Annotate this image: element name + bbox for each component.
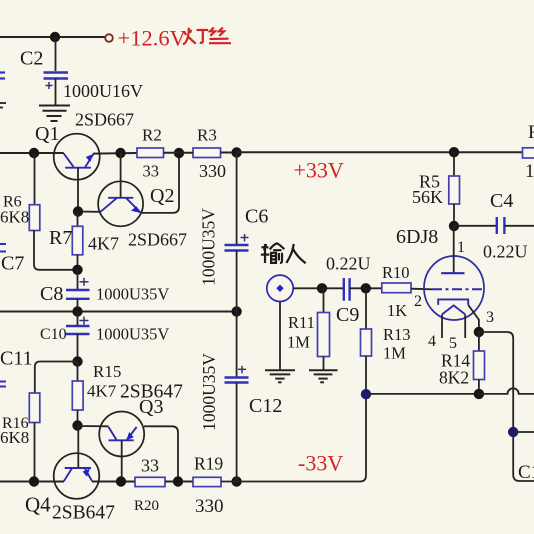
node junction R16 bottom bbox=[29, 476, 39, 486]
svg-text:R2: R2 bbox=[142, 126, 162, 145]
transistor Q4 2SB647 bbox=[25, 426, 115, 524]
svg-text:2SD667: 2SD667 bbox=[75, 110, 134, 130]
svg-text:C9: C9 bbox=[336, 304, 359, 326]
wire C9 to R10 node bbox=[350, 287, 382, 289]
svg-text:0.22U: 0.22U bbox=[483, 242, 528, 262]
node junction C6 top bbox=[231, 147, 241, 157]
svg-text:R8: R8 bbox=[528, 122, 534, 143]
node junction R5 top bbox=[449, 147, 459, 157]
svg-text:1000U35V: 1000U35V bbox=[199, 353, 219, 431]
node junction R20/R19 bbox=[173, 476, 183, 486]
anode plate bbox=[441, 272, 464, 274]
wire Q1 emitter to R2 bbox=[93, 152, 137, 155]
node junction R15/Q4 base/Q3 collector bbox=[72, 420, 82, 430]
svg-text:C4: C4 bbox=[490, 190, 513, 212]
wire C2 top bbox=[55, 37, 57, 71]
transistor Q2 2SD667 bbox=[98, 153, 187, 250]
ground input jack bbox=[265, 370, 295, 382]
cathode bbox=[438, 299, 468, 305]
wire mid rail bbox=[0, 311, 237, 313]
resistor R2 bbox=[137, 126, 164, 181]
svg-text:1K: 1K bbox=[387, 301, 407, 320]
heater pin 4 bbox=[441, 314, 443, 338]
svg-text:-33V: -33V bbox=[298, 451, 343, 476]
wire C2 bottom bbox=[55, 79, 57, 106]
resistor R19 bbox=[193, 454, 224, 518]
resistor R11 bbox=[287, 288, 330, 370]
svg-text:0.22U: 0.22U bbox=[326, 254, 371, 274]
ground C2 bbox=[39, 106, 70, 122]
capacitor C8 bbox=[40, 270, 169, 312]
capacitor C2 plates bbox=[44, 73, 69, 79]
svg-text:33: 33 bbox=[143, 162, 160, 181]
svg-text:+33V: +33V bbox=[294, 158, 344, 183]
label +12.6V filament (red) bbox=[118, 26, 186, 51]
svg-text:1M: 1M bbox=[287, 333, 310, 352]
svg-text:R7: R7 bbox=[49, 227, 72, 249]
resistor R13 bbox=[361, 288, 411, 394]
svg-text:4K7: 4K7 bbox=[87, 382, 117, 401]
svg-text:1000U35V: 1000U35V bbox=[96, 285, 169, 304]
node junction R13/-33V riser (blue) bbox=[361, 389, 371, 399]
node junction Q1 base/Q2 collector/R7 bbox=[73, 206, 83, 216]
wire bottom rail left bbox=[0, 481, 64, 483]
wire jack to C9 bbox=[293, 287, 343, 289]
wire R10 to grid pin 2 bbox=[411, 288, 432, 291]
connector input jack bbox=[267, 275, 293, 301]
svg-text:6K8: 6K8 bbox=[0, 208, 29, 227]
wire with hop over riser bbox=[479, 388, 534, 394]
C2 polarity + bbox=[46, 82, 53, 89]
node junction C6/C12 on mid rail bbox=[231, 306, 241, 316]
resistor R20 bbox=[134, 456, 165, 515]
resistor R14 bbox=[439, 332, 485, 394]
wire pin3 node to output riser bbox=[479, 332, 534, 481]
svg-text:C7: C7 bbox=[1, 253, 24, 275]
wire riser node to right edge bbox=[513, 431, 534, 433]
wire node to C4 bbox=[454, 225, 496, 227]
svg-text:1000U16V: 1000U16V bbox=[63, 81, 143, 101]
node junction R7/C8 bbox=[72, 265, 82, 275]
capacitor C10 bbox=[40, 312, 169, 362]
svg-text:8K2: 8K2 bbox=[439, 368, 469, 388]
wire R20-R19 bbox=[165, 481, 193, 483]
node junction C9/R10/R13 bbox=[361, 283, 371, 293]
svg-text:4: 4 bbox=[428, 333, 436, 350]
svg-text:1000U35V: 1000U35V bbox=[199, 208, 219, 286]
resistor R8 (cut off at right edge) bbox=[523, 122, 534, 182]
wire Q2 emitter up to R2/R3 node bbox=[142, 153, 179, 213]
svg-text:R3: R3 bbox=[197, 126, 217, 145]
label 灯丝 (red, drawn glyphs) bbox=[183, 28, 231, 45]
svg-text:C2: C2 bbox=[20, 48, 43, 70]
node junction pin3/R14 bbox=[474, 327, 484, 337]
svg-text:5: 5 bbox=[449, 335, 457, 352]
svg-text:R20: R20 bbox=[134, 498, 159, 514]
svg-text:3: 3 bbox=[486, 309, 494, 326]
pin 1 anode lead bbox=[453, 226, 455, 273]
node junction R6 top bbox=[29, 148, 39, 158]
node junction C10/R16/R15 bbox=[72, 356, 82, 366]
svg-text:Q2: Q2 bbox=[150, 185, 174, 207]
resistor R16 bbox=[0, 362, 77, 482]
wire -33V rail to riser bbox=[221, 394, 366, 481]
node junction output riser (blue) bbox=[508, 427, 518, 437]
svg-text:Q1: Q1 bbox=[35, 123, 59, 145]
capacitor C11 (cut off at left edge) bbox=[0, 382, 6, 387]
resistor R5 bbox=[412, 152, 460, 226]
svg-text:6K8: 6K8 bbox=[0, 428, 29, 447]
svg-text:C11: C11 bbox=[0, 348, 33, 370]
svg-text:C15: C15 bbox=[518, 462, 534, 483]
ground (cut off at left edge) bbox=[0, 103, 6, 108]
svg-text:1: 1 bbox=[457, 239, 465, 256]
svg-text:R13: R13 bbox=[383, 325, 411, 344]
vacuum tube U1 6DJ8 bbox=[396, 226, 494, 352]
svg-text:C12: C12 bbox=[249, 395, 282, 417]
wire jack ground bbox=[279, 302, 281, 371]
cathode lead to pin 3 bbox=[468, 305, 479, 332]
capacitor C7 (cut off at left edge) bbox=[0, 244, 6, 252]
svg-text:C6: C6 bbox=[245, 206, 268, 228]
wire R3 to C6 node bbox=[221, 152, 237, 154]
wire +rail into Q1 collector bbox=[0, 152, 64, 154]
svg-text:C10: C10 bbox=[40, 326, 67, 343]
wire Q2 collector to node bbox=[78, 211, 99, 213]
resistor R7 bbox=[49, 212, 119, 270]
svg-text:330: 330 bbox=[199, 161, 226, 181]
wire R13 node to R14 node bbox=[366, 393, 479, 395]
node junction C12 bottom bbox=[231, 476, 241, 486]
resistor R3 bbox=[193, 126, 226, 182]
resistor R15 bbox=[72, 362, 121, 426]
ground R11 bbox=[309, 370, 338, 382]
capacitor C4 bbox=[483, 190, 528, 262]
svg-text:33: 33 bbox=[141, 456, 159, 476]
svg-text:1M: 1M bbox=[383, 344, 406, 363]
svg-text:C8: C8 bbox=[40, 283, 63, 305]
svg-text:R10: R10 bbox=[382, 263, 410, 282]
node junction R5/C4/plate bbox=[449, 221, 459, 231]
svg-text:2: 2 bbox=[414, 293, 422, 310]
svg-text:2SB647: 2SB647 bbox=[120, 382, 183, 403]
svg-text:R11: R11 bbox=[288, 313, 315, 332]
resistor R10 bbox=[382, 263, 411, 320]
node junction top rail bbox=[50, 32, 60, 42]
wire +33V rail bbox=[237, 151, 523, 153]
svg-text:2SD667: 2SD667 bbox=[128, 230, 187, 250]
svg-text:4K7: 4K7 bbox=[88, 234, 119, 254]
wire R2-R3 bbox=[164, 152, 194, 154]
svg-text:1000U35V: 1000U35V bbox=[96, 325, 169, 344]
heater bbox=[442, 305, 465, 314]
svg-text:R19: R19 bbox=[194, 454, 223, 474]
wire top filament rail bbox=[0, 36, 105, 38]
svg-text:+12.6V: +12.6V bbox=[118, 26, 186, 51]
svg-text:2SB647: 2SB647 bbox=[52, 503, 115, 524]
terminal +12.6V output circle bbox=[105, 34, 113, 42]
svg-text:6DJ8: 6DJ8 bbox=[396, 226, 438, 248]
node junction R14 bottom bbox=[474, 389, 484, 399]
wire C4 to right edge bbox=[504, 225, 534, 227]
svg-text:R15: R15 bbox=[93, 362, 121, 381]
resistor R6 bbox=[0, 153, 77, 270]
wire Q3 emitter down to rail bbox=[144, 426, 178, 481]
node junction C8/C10 on mid rail bbox=[72, 306, 82, 316]
capacitor C12 bbox=[199, 312, 282, 482]
svg-text:Q4: Q4 bbox=[25, 493, 51, 517]
heater pin 5 bbox=[464, 314, 466, 338]
wire Q4 emitter to R20 bbox=[92, 481, 135, 483]
capacitor C1 (cut off at left edge) plates bbox=[0, 73, 5, 79]
transistor Q3 2SB647 bbox=[78, 382, 184, 482]
transistor Q1 2SD667 bbox=[35, 110, 134, 212]
node junction Q3 base/R20 bbox=[116, 476, 126, 486]
svg-text:100: 100 bbox=[525, 161, 534, 182]
node junction jack/R11 bbox=[317, 283, 327, 293]
grid (dashed) bbox=[432, 288, 482, 290]
node junction Q1/R2/Q2 base bbox=[115, 148, 125, 158]
label 输入 input (drawn glyphs) bbox=[261, 243, 306, 263]
capacitor C9 bbox=[326, 254, 371, 327]
svg-text:56K: 56K bbox=[412, 187, 443, 207]
capacitor C6 bbox=[199, 153, 269, 312]
svg-text:330: 330 bbox=[195, 496, 224, 517]
node junction R2/R3 bbox=[174, 148, 184, 158]
